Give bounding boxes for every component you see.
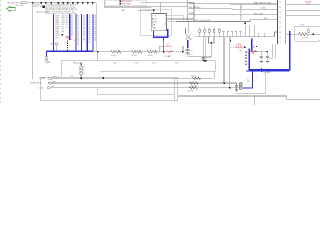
faint outline around resistor pack bbox=[106, 0, 147, 5]
power rail bar 4 (blue) bbox=[81, 14, 83, 51]
wire gray continuation of bottom bus bbox=[93, 51, 111, 53]
svg-text:SM_PWROK1: SM_PWROK1 bbox=[189, 7, 200, 9]
svg-text:1V8: 1V8 bbox=[239, 51, 242, 53]
node big junction bbox=[42, 6, 45, 9]
short stubs on rail bbox=[224, 32, 241, 37]
IC U? (level shifter) bbox=[151, 14, 166, 31]
svg-text:G5: G5 bbox=[94, 24, 96, 26]
svg-text:1_WAN: 1_WAN bbox=[44, 61, 51, 64]
svg-text:1 2: 1 2 bbox=[279, 27, 281, 29]
svg-text:C1 C2 C3 C4 C5 C6 C7 C8 C9 C10: C1 C2 C3 C4 C5 C6 C7 C8 C9 C10 C11 C1 bbox=[46, 4, 77, 6]
junction on gray bus bbox=[97, 51, 99, 53]
svg-text:V0: V0 bbox=[89, 31, 91, 33]
no-connect dashed line bbox=[67, 41, 69, 52]
junction dot on drop wire bbox=[205, 60, 207, 62]
svg-text:L3: L3 bbox=[66, 26, 68, 28]
long bottom wire right bbox=[178, 96, 320, 99]
svg-text:L1: L1 bbox=[66, 24, 68, 26]
svg-text:V1: V1 bbox=[77, 37, 79, 39]
pull-up rail bbox=[195, 36, 275, 38]
wire U? right pin bbox=[167, 18, 195, 20]
pin wire SM_PWROK bbox=[188, 7, 258, 9]
svg-text:G4: G4 bbox=[94, 22, 96, 24]
svg-text:UART_TXD_RX_3V3: UART_TXD_RX_3V3 bbox=[193, 19, 210, 22]
svg-text:X?: X? bbox=[247, 79, 249, 81]
svg-text:V8: V8 bbox=[83, 15, 85, 17]
node BOOST_1V0_PGOOD label bbox=[8, 2, 28, 4]
blue wire U-route under U? bbox=[154, 29, 168, 37]
svg-text:LED1: LED1 bbox=[189, 2, 194, 4]
svg-text:100n: 100n bbox=[269, 58, 273, 60]
svg-text:V0: V0 bbox=[89, 37, 91, 39]
blue stub to jumper bbox=[46, 51, 48, 56]
svg-text:V8: V8 bbox=[83, 35, 85, 37]
dashed DNP resistor row bbox=[163, 51, 183, 58]
svg-text:VD10: VD10 bbox=[55, 31, 59, 33]
svg-text:V8: V8 bbox=[83, 37, 85, 39]
component drop at x=183 bbox=[182, 46, 183, 52]
row 2: fuse + wire bbox=[30, 81, 237, 84]
svg-text:G7: G7 bbox=[94, 29, 96, 31]
svg-text:V3: V3 bbox=[71, 15, 73, 17]
red annotation top right bbox=[305, 1, 312, 5]
svg-text:V3: V3 bbox=[71, 31, 73, 33]
svg-text:V3: V3 bbox=[71, 26, 73, 28]
svg-text:VD10: VD10 bbox=[55, 33, 59, 35]
resistor chain column (left of box A interior) bbox=[73, 62, 85, 79]
svg-text:3 4: 3 4 bbox=[279, 7, 281, 9]
box containing level shifter bbox=[141, 9, 172, 36]
junction near rail 2 bbox=[61, 34, 63, 36]
svg-text:V8: V8 bbox=[83, 33, 85, 35]
power rail bar 3 (blue) bbox=[75, 14, 77, 51]
inner vertical of box B bbox=[173, 77, 175, 101]
svg-text:7 8: 7 8 bbox=[279, 42, 281, 44]
svg-text:V1: V1 bbox=[77, 20, 79, 22]
svg-text:K4: K4 bbox=[66, 18, 68, 20]
svg-text:R1005: R1005 bbox=[111, 55, 116, 57]
svg-text:V1: V1 bbox=[77, 15, 79, 17]
wire top-left bbox=[27, 2, 33, 4]
power rail bar 2 (blue) bbox=[69, 14, 71, 40]
capacitor C? under B1 bbox=[185, 48, 193, 56]
svg-text:1V_GND: 1V_GND bbox=[263, 72, 271, 74]
wire vertical trunk x=32.7 bbox=[32, 3, 34, 79]
svg-text:2_USB: 2_USB bbox=[260, 8, 266, 10]
svg-text:1 2: 1 2 bbox=[279, 2, 281, 4]
blue bottom bus bbox=[47, 50, 93, 52]
pin label text columns beside rails bbox=[55, 14, 96, 46]
junction at stub top bbox=[245, 22, 246, 23]
svg-text:VD33: VD33 bbox=[55, 15, 59, 17]
svg-text:C11: C11 bbox=[62, 20, 65, 22]
rail turn up to connector bbox=[274, 32, 276, 37]
box D bottom right bbox=[294, 26, 320, 41]
box corner bottom right of LED bbox=[236, 72, 266, 93]
svg-text:V1: V1 bbox=[77, 40, 79, 42]
svg-text:V1: V1 bbox=[77, 42, 79, 44]
svg-text:PU 1V8 C12: PU 1V8 C12 bbox=[34, 4, 43, 6]
svg-text:V3: V3 bbox=[71, 29, 73, 31]
svg-text:USB1_PROPTL_TXD4: USB1_PROPTL_TXD4 bbox=[254, 2, 271, 4]
svg-text:R1005: R1005 bbox=[148, 55, 153, 57]
svg-text:0402: 0402 bbox=[152, 63, 156, 65]
svg-text:G2: G2 bbox=[94, 18, 96, 20]
svg-text:C?: C? bbox=[190, 50, 192, 52]
crossover X of diff pair bbox=[186, 22, 192, 41]
wire vertical x=194 bbox=[193, 2, 195, 19]
svg-text:10K 1%: 10K 1% bbox=[303, 38, 309, 40]
svg-text:V1: V1 bbox=[77, 26, 79, 28]
svg-text:E9: E9 bbox=[62, 24, 64, 26]
svg-text:1K: 1K bbox=[83, 67, 85, 69]
svg-text:U?: U? bbox=[154, 16, 156, 18]
U-junction under rail bbox=[209, 37, 215, 58]
svg-text:VD33: VD33 bbox=[55, 22, 59, 24]
power rail bar 5 (blue) bbox=[86, 14, 88, 51]
svg-text:MH2012: MH2012 bbox=[53, 77, 59, 79]
connector left pin wires with labels bbox=[252, 2, 278, 32]
svg-text:V8: V8 bbox=[83, 22, 85, 24]
small text above row1 near chain bbox=[70, 75, 82, 79]
inner corner line box C bbox=[98, 88, 175, 94]
svg-text:5 6: 5 6 bbox=[279, 12, 281, 14]
blue net B4/B5 elbow route bbox=[249, 31, 289, 70]
svg-text:G9: G9 bbox=[94, 33, 96, 35]
port arrow BOOST_PGOOD (green input port) bbox=[6, 6, 15, 11]
svg-text:G3: G3 bbox=[94, 20, 96, 22]
svg-text:BOOST_IN 10: BOOST_IN 10 bbox=[30, 83, 42, 85]
capacitor C? (x=267.3) bbox=[265, 52, 272, 63]
wire branch up at x=159.4 bbox=[158, 46, 160, 52]
svg-text:0402: 0402 bbox=[113, 63, 117, 65]
svg-text:G1: G1 bbox=[94, 37, 96, 39]
blue second horizontal bbox=[246, 70, 290, 72]
resistor R? on row1 (zigzag) bbox=[191, 76, 201, 80]
svg-text:G7: G7 bbox=[62, 29, 64, 31]
svg-text:G1: G1 bbox=[94, 15, 96, 17]
svg-text:DNP 100K: DNP 100K bbox=[15, 5, 25, 7]
junction + ground at 203 bbox=[202, 56, 204, 58]
crystal Y? (bottom right) bbox=[239, 79, 249, 90]
svg-text:V3: V3 bbox=[71, 35, 73, 37]
svg-text:V1: V1 bbox=[77, 18, 79, 20]
wire drop to box A bbox=[97, 52, 99, 61]
svg-text:7 8: 7 8 bbox=[279, 17, 281, 19]
wire pair to center block bbox=[104, 5, 187, 7]
svg-text:V1: V1 bbox=[77, 29, 79, 31]
resistor R201 (series, top-left) bbox=[15, 2, 27, 8]
svg-text:R1005: R1005 bbox=[132, 55, 137, 57]
svg-text:V0: V0 bbox=[89, 33, 91, 35]
svg-text:V3: V3 bbox=[71, 20, 73, 22]
svg-text:V3: V3 bbox=[71, 22, 73, 24]
svg-text:3 4: 3 4 bbox=[279, 32, 281, 34]
wire y=51.5 cluster bbox=[247, 51, 268, 52]
svg-text:4.7K: 4.7K bbox=[70, 75, 73, 77]
svg-text:C2 1u C3 1u C4 1u C5 1u C6 1u: C2 1u C3 1u C4 1u C5 1u C6 1u C7 1u C8 bbox=[45, 7, 75, 9]
drop wires below rail bbox=[203, 37, 230, 88]
resistor R? on y=52 wire (3) bbox=[147, 50, 158, 57]
svg-text:G8: G8 bbox=[94, 31, 96, 33]
svg-text:1K: 1K bbox=[83, 73, 85, 75]
values inside box A bbox=[113, 63, 179, 65]
pin wire LED bbox=[188, 2, 254, 4]
wire feeding U? top bbox=[138, 9, 154, 11]
svg-text:V1: V1 bbox=[77, 22, 79, 24]
svg-text:BOOST_1V0: BOOST_1V0 bbox=[34, 6, 43, 8]
junction dots for resistor pack bbox=[120, 0, 122, 2]
capacitor C? (x=261.3) bbox=[259, 52, 263, 63]
resistor R? on row3 (zigzag) bbox=[188, 87, 198, 93]
pull-up resistors group (tall stubs with bodies) bbox=[200, 28, 220, 37]
svg-text:100n C9 100n C1 100n C2 100n C: 100n C9 100n C1 100n C2 100n C3 100n C4 bbox=[45, 9, 77, 11]
drop from bottom wire bbox=[253, 96, 255, 105]
wire top-center bbox=[141, 1, 195, 3]
pin wire PWR bbox=[188, 13, 252, 15]
svg-text:V8: V8 bbox=[83, 20, 85, 22]
svg-text:V0: V0 bbox=[89, 18, 91, 20]
svg-text:VD18: VD18 bbox=[55, 26, 59, 28]
jumper JP1 below blue bus bbox=[44, 57, 51, 64]
svg-text:DNP 0R: DNP 0R bbox=[166, 46, 173, 48]
svg-text:V3: V3 bbox=[71, 33, 73, 35]
svg-text:A1 B1: A1 B1 bbox=[152, 18, 157, 21]
power rail bar 1 (blue) bbox=[53, 14, 55, 51]
resistor pack red label (top middle) bbox=[122, 1, 132, 5]
svg-text:V3: V3 bbox=[71, 24, 73, 26]
svg-text:VD10: VD10 bbox=[55, 37, 59, 39]
row 1: fuse + wire bbox=[39, 71, 215, 80]
connector right exit wires bbox=[286, 5, 320, 34]
svg-text:VD33: VD33 bbox=[55, 18, 59, 20]
svg-text:V8: V8 bbox=[83, 31, 85, 33]
capacitor bank text block bbox=[34, 4, 78, 15]
DNP crossed parts cluster (pink) bbox=[231, 44, 257, 65]
svg-text:K2: K2 bbox=[66, 15, 68, 17]
ground under C? bbox=[186, 53, 190, 55]
svg-text:V8: V8 bbox=[83, 40, 85, 42]
blue rail stub B1 bbox=[187, 40, 189, 48]
box B (bottom box) bbox=[41, 77, 178, 101]
ferrite bead FB1 (pink) bbox=[66, 36, 69, 38]
svg-text:V1: V1 bbox=[77, 44, 79, 46]
junction at top of vertical trunk bbox=[32, 2, 34, 4]
svg-text:G2: G2 bbox=[94, 40, 96, 42]
svg-text:V8: V8 bbox=[83, 24, 85, 26]
wire y=56.9 bbox=[188, 56, 212, 58]
svg-text:1K: 1K bbox=[83, 70, 85, 72]
svg-text:R_UART: R_UART bbox=[165, 55, 172, 58]
svg-text:VD10: VD10 bbox=[55, 35, 59, 37]
svg-text:PRO_TXD4: PRO_TXD4 bbox=[254, 13, 263, 15]
svg-text:1u 10u 1u 10u 1u 10u 1u 10u 1u: 1u 10u 1u 10u 1u 10u 1u 10u 1u 10u 1u bbox=[45, 11, 73, 13]
capacitors at rows end bbox=[235, 83, 241, 91]
svg-text:G6: G6 bbox=[94, 26, 96, 28]
svg-text:5 6: 5 6 bbox=[279, 37, 281, 39]
svg-text:V0: V0 bbox=[89, 40, 91, 42]
svg-text:V8: V8 bbox=[83, 29, 85, 31]
svg-text:R? 10K: R? 10K bbox=[191, 76, 197, 78]
svg-text:10u 10u 100n 10u 100n 1u 10u 1: 10u 10u 100n 10u 100n 1u 10u 1u 10u 1u bbox=[45, 6, 75, 8]
svg-text:V8: V8 bbox=[83, 26, 85, 28]
svg-text:VD18: VD18 bbox=[55, 29, 59, 31]
capacitor pair from connector bottom bbox=[273, 44, 276, 58]
blue wire from crystal bbox=[243, 71, 253, 88]
svg-text:1_PWR: 1_PWR bbox=[39, 78, 46, 80]
svg-text:VD33: VD33 bbox=[55, 20, 59, 22]
svg-text:A2 B2: A2 B2 bbox=[152, 21, 157, 24]
svg-text:V0: V0 bbox=[89, 29, 91, 31]
svg-text:V0: V0 bbox=[89, 26, 91, 28]
row 3: fuse + wire bbox=[39, 86, 240, 89]
junction below rail bbox=[230, 40, 232, 42]
svg-text:V0: V0 bbox=[89, 24, 91, 26]
svg-text:V0: V0 bbox=[89, 22, 91, 24]
svg-text:V1: V1 bbox=[77, 35, 79, 37]
taller right stubs bbox=[245, 23, 264, 37]
svg-text:9 0: 9 0 bbox=[279, 22, 281, 24]
junction dots on top bus bbox=[41, 2, 94, 4]
resistor R? on y=52 wire (2) bbox=[132, 50, 143, 57]
svg-text:V0: V0 bbox=[89, 15, 91, 17]
power rail bar 6 (blue) bbox=[92, 14, 94, 51]
svg-text:3V3: 3V3 bbox=[264, 18, 267, 20]
wire vertical at x=104.4 bbox=[103, 0, 105, 7]
svg-text:VD18: VD18 bbox=[55, 24, 59, 26]
svg-text:V3: V3 bbox=[71, 18, 73, 20]
svg-text:V0: V0 bbox=[89, 20, 91, 22]
block left-edge pin line bbox=[187, 0, 189, 22]
svg-text:0402: 0402 bbox=[135, 63, 139, 65]
svg-text:R? 10K: R? 10K bbox=[188, 90, 194, 92]
svg-text:V1: V1 bbox=[77, 24, 79, 26]
power flag (blue down arrow) bbox=[261, 68, 271, 74]
blue rail stub B3 bbox=[251, 39, 253, 52]
svg-text:V1: V1 bbox=[77, 33, 79, 35]
svg-text:1_PWR: 1_PWR bbox=[185, 54, 192, 56]
row1 annotations bbox=[101, 77, 104, 79]
svg-text:F8: F8 bbox=[62, 26, 64, 28]
svg-text:D10: D10 bbox=[62, 22, 65, 24]
blue stub below level shifter bbox=[163, 37, 165, 40]
svg-text:K8: K8 bbox=[66, 22, 68, 24]
resistor R? zigzag in box D bbox=[299, 33, 320, 36]
resistor R? on row2 (zigzag) bbox=[190, 82, 199, 88]
svg-text:32k: 32k bbox=[247, 81, 250, 83]
svg-text:V8: V8 bbox=[83, 18, 85, 20]
svg-text:C5 100n C6 100n C7 100n C8 100: C5 100n C6 100n C7 100n C8 100n C9 10u bbox=[45, 13, 76, 15]
svg-text:B12: B12 bbox=[62, 18, 65, 20]
svg-text:JP?: JP? bbox=[50, 44, 53, 46]
resistor R? on y=52 wire (1) bbox=[111, 50, 122, 57]
svg-text:R?: R? bbox=[75, 40, 77, 42]
net label UART wire bbox=[176, 19, 262, 22]
sheet border (left green dashed) bbox=[0, 0, 2, 105]
svg-text:K6: K6 bbox=[66, 20, 68, 22]
svg-text:H6: H6 bbox=[62, 31, 64, 33]
wire top power bus bbox=[33, 2, 96, 4]
svg-text:V0: V0 bbox=[89, 42, 91, 44]
jumper JP2 above blue bus bbox=[50, 43, 58, 51]
connector J? (right, 2 columns) bbox=[278, 0, 286, 44]
svg-text:V0: V0 bbox=[89, 35, 91, 37]
wire drop from blue stub bbox=[163, 40, 165, 51]
svg-text:0402: 0402 bbox=[175, 63, 179, 65]
svg-text:G0: G0 bbox=[94, 35, 96, 37]
svg-text:PWR: PWR bbox=[189, 13, 194, 15]
svg-text:V1: V1 bbox=[77, 31, 79, 33]
capacitor stubs under bus bbox=[51, 3, 93, 5]
box A (bottom-center module) bbox=[61, 61, 215, 78]
junctions on rows bbox=[223, 82, 225, 84]
svg-text:BOOST_SYS_JTAG: BOOST_SYS_JTAG bbox=[239, 4, 242, 20]
wire right edge of capacitor bank bbox=[95, 3, 97, 51]
